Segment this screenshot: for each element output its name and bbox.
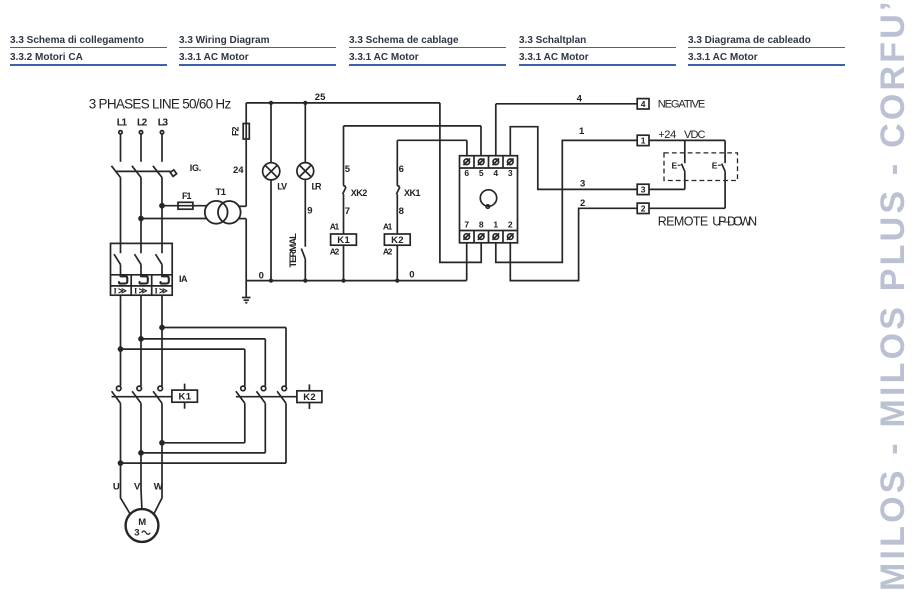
- label A2 K1: [330, 246, 340, 256]
- breaker IA pole 1 magnetic label I>>: [114, 286, 128, 296]
- label wire 3: [580, 179, 585, 190]
- contactor K2 pole 2 contact: [256, 386, 265, 403]
- header row 2 col 4: [519, 52, 589, 63]
- svg-text:LV: LV: [277, 181, 287, 191]
- switch IG pole 3 blade: [153, 166, 162, 178]
- node L3 label: [158, 118, 169, 129]
- wire U lead to motor: [121, 490, 131, 514]
- terminal screw 1: [493, 233, 500, 240]
- terminal screw 3: [507, 159, 514, 166]
- svg-text:A2: A2: [383, 246, 393, 256]
- wire box 2 to pushbutton E2: [649, 207, 725, 209]
- wire L3 to breaker: [161, 178, 163, 244]
- node L2 label: [137, 118, 148, 129]
- E1 dash: [678, 164, 681, 166]
- contactor K2 linkage: [236, 396, 297, 398]
- terminal screw 2: [507, 233, 514, 240]
- fuse F1: [178, 202, 193, 209]
- contactor K2 pole 1 contact: [236, 386, 245, 403]
- label T1: [216, 187, 227, 198]
- svg-text:A1: A1: [383, 222, 393, 232]
- terminal L3: [160, 131, 163, 134]
- pin labels 6 5 4 3: [464, 168, 513, 178]
- svg-text:≫: ≫: [159, 286, 168, 296]
- label NEGATIVE: [658, 98, 706, 110]
- wire K2 pole2 to V: [141, 403, 265, 453]
- wire rail25 down to terminal 8: [440, 103, 481, 263]
- svg-text:I: I: [134, 286, 138, 296]
- switch XK1: [396, 183, 399, 195]
- wire W lead to motor: [154, 490, 162, 514]
- wire L3 to fuse F1 to T1: [162, 205, 207, 207]
- header row 2 col 2: [179, 52, 249, 63]
- wire L1 drop: [120, 134, 122, 162]
- pin labels 7 8 1 2: [464, 220, 513, 230]
- svg-text:6: 6: [399, 164, 404, 175]
- label 6: [399, 164, 404, 175]
- wire box 3 to pushbutton E1: [649, 188, 685, 190]
- header row 1 col 3: [349, 35, 459, 46]
- label wire 2: [580, 198, 585, 209]
- wire 24 vertical through F2: [245, 103, 247, 206]
- header row 1 col 4: [519, 35, 586, 46]
- header row 1 col 1: [10, 35, 144, 46]
- wire K2 coil branch top: [397, 140, 467, 182]
- node phase3 tap: [160, 326, 164, 330]
- svg-text:L3: L3: [158, 118, 169, 129]
- node L1 label: [117, 118, 128, 129]
- node L2/T1 junction: [139, 217, 143, 221]
- contactor K1 pole 1 contact: [112, 386, 121, 403]
- switch XK2: [343, 183, 346, 195]
- svg-text:≫: ≫: [118, 286, 127, 296]
- wire terminal 1 to box 1: [496, 140, 637, 262]
- svg-text:E: E: [672, 161, 678, 171]
- label 0 left: [259, 271, 264, 282]
- svg-text:I: I: [155, 286, 159, 296]
- label K1 box: [179, 392, 192, 403]
- transformer T1: [205, 201, 241, 224]
- label 5: [345, 164, 351, 175]
- svg-text:24: 24: [233, 165, 244, 176]
- label A2 K2: [383, 246, 393, 256]
- relay socket circle: [480, 190, 496, 209]
- label V: [134, 481, 141, 492]
- wire L2 to T1: [141, 218, 207, 220]
- header row 2 col 5: [688, 52, 758, 63]
- wire LV branch upper: [270, 103, 272, 163]
- svg-text:F2: F2: [231, 127, 241, 137]
- svg-text:TERMAL: TERMAL: [288, 233, 299, 268]
- motor M: [126, 509, 159, 542]
- contactor K1 pole 2 contact: [132, 386, 141, 403]
- label A1 K2: [383, 222, 393, 232]
- coil K1: [331, 234, 357, 245]
- svg-text:F1: F1: [182, 191, 192, 201]
- terminal block top dividers: [474, 156, 503, 168]
- svg-text:IG.: IG.: [190, 163, 202, 173]
- terminal L1: [119, 131, 122, 134]
- coil K2: [384, 234, 410, 245]
- svg-text:8: 8: [479, 220, 484, 230]
- svg-text:A1: A1: [330, 222, 340, 232]
- wire K1 coil to rail 0: [343, 245, 345, 280]
- svg-text:4: 4: [577, 94, 583, 105]
- label E1: [672, 161, 678, 171]
- node L3/F1 junction: [160, 204, 164, 208]
- terminal screw 4: [493, 159, 500, 166]
- wire V lead to motor: [140, 490, 143, 510]
- svg-text:E: E: [712, 161, 718, 171]
- svg-text:5: 5: [345, 164, 351, 175]
- svg-text:U: U: [113, 481, 120, 492]
- switch IG pole 2 blade: [132, 166, 141, 178]
- terminal screw 7: [463, 233, 470, 240]
- breaker IA pole 1 thermal element: [119, 275, 127, 284]
- contactor K2 pole 3 contact: [277, 386, 286, 403]
- breaker IA pole 2 thermal element: [139, 275, 147, 284]
- wire terminal 5 up to K1 line: [480, 126, 482, 156]
- svg-text:K2: K2: [303, 392, 316, 403]
- wire K2 coil to rail 0: [396, 245, 398, 280]
- svg-text:K1: K1: [179, 392, 192, 403]
- breaker IA body: [111, 243, 173, 295]
- label 8: [399, 206, 404, 217]
- node rail0/LV junction: [270, 279, 273, 282]
- connector box 2: [637, 203, 649, 213]
- switch TERMAL blade: [301, 249, 305, 259]
- svg-text:2: 2: [508, 220, 513, 230]
- svg-text:XK1: XK1: [404, 188, 421, 198]
- label LR: [312, 181, 323, 191]
- contactor K2 designation box: [297, 384, 322, 409]
- breaker IA pole 2 contact: [135, 243, 142, 274]
- wire terminal 3 up and over: [510, 127, 637, 190]
- connector box 1: [637, 135, 649, 145]
- wire L1 to breaker: [120, 178, 122, 244]
- ground: [242, 298, 251, 303]
- label 25: [315, 92, 326, 103]
- wire rail 25: [246, 102, 440, 104]
- svg-text:3: 3: [641, 185, 646, 195]
- svg-text:+24: +24: [658, 129, 676, 141]
- svg-text:4: 4: [641, 99, 646, 109]
- connector box 4: [637, 99, 649, 109]
- label XK2: [351, 188, 368, 198]
- connector box 3: [637, 184, 649, 194]
- breaker IA pole 3 thermal element: [160, 275, 168, 284]
- label W: [154, 481, 163, 492]
- label XK1: [404, 188, 421, 198]
- dashed pushbutton enclosure: [664, 153, 738, 181]
- svg-text:7: 7: [464, 220, 469, 230]
- label F2: [231, 127, 241, 137]
- sidebar vertical brand text: [874, 0, 913, 591]
- pushbutton E2: [722, 140, 725, 208]
- wire terminal 4 up: [495, 104, 497, 156]
- wire phase2 to K2 pole2: [141, 339, 265, 386]
- svg-text:V: V: [134, 481, 141, 492]
- label wire 1: [579, 126, 585, 137]
- wire L3 drop: [161, 134, 163, 162]
- svg-text:T1: T1: [216, 187, 227, 198]
- label E2: [712, 161, 718, 171]
- svg-text:3: 3: [580, 179, 585, 190]
- node phase2 tap: [139, 337, 143, 341]
- pin 4 label: [641, 99, 646, 109]
- breaker IA pole 2 magnetic label I>>: [134, 286, 148, 296]
- svg-text:0: 0: [259, 271, 264, 282]
- label 0 right: [409, 269, 414, 280]
- terminal L2: [139, 131, 142, 134]
- contactor K1 designation box: [172, 384, 198, 409]
- terminal screw 6: [463, 159, 470, 166]
- svg-text:3: 3: [508, 168, 513, 178]
- pushbutton E1: [681, 140, 684, 189]
- svg-text:K2: K2: [391, 235, 404, 246]
- label 9: [307, 206, 312, 217]
- svg-text:L2: L2: [137, 118, 148, 129]
- svg-text:XK2: XK2: [351, 188, 368, 198]
- node rail25/LR junction: [304, 102, 307, 105]
- wire LR branch lower: [304, 259, 306, 281]
- wire terminal 6 up to K2 line: [466, 140, 468, 155]
- node phase1 tap: [119, 347, 123, 351]
- svg-text:A2: A2: [330, 246, 340, 256]
- label IA: [179, 274, 188, 284]
- terminal screw 8: [478, 233, 485, 240]
- wire K2 pole3 to U: [121, 403, 287, 463]
- wire terminal 2 to box 2: [510, 208, 637, 280]
- label M 3~: [134, 517, 146, 538]
- label K2 box: [303, 392, 316, 403]
- switch IG pole 1 blade: [111, 166, 120, 178]
- svg-text:NEGATIVE: NEGATIVE: [658, 98, 706, 110]
- header row 2 col 1: [10, 52, 83, 63]
- wire K1 coil branch top: [344, 126, 482, 183]
- wire XK2 to K1 coil: [343, 194, 345, 234]
- wire XK1 to K2 coil: [396, 194, 398, 234]
- svg-text:K1: K1: [337, 235, 350, 246]
- wire LR branch middle: [304, 179, 306, 246]
- svg-text:≫: ≫: [139, 286, 148, 296]
- node rail0/K2 junction: [396, 279, 399, 282]
- node crossover W: [160, 441, 164, 445]
- svg-text:L1: L1: [117, 118, 128, 129]
- svg-text:9: 9: [307, 206, 312, 217]
- header row 1 col 5: [688, 35, 811, 46]
- node rail0/K1 junction: [342, 279, 345, 282]
- svg-text:REMOTE: REMOTE: [658, 214, 709, 228]
- terminal block body: [460, 156, 518, 243]
- E2 dash: [718, 164, 721, 166]
- wire +24VDC rail: [649, 139, 725, 141]
- svg-text:1: 1: [641, 136, 646, 146]
- svg-text:2: 2: [641, 203, 646, 213]
- svg-text:6: 6: [464, 168, 469, 178]
- wire T1 secondary top: [239, 205, 246, 207]
- node rail25/LV junction: [270, 102, 273, 105]
- label 7: [345, 206, 350, 217]
- contactor K1 pole 3 contact: [153, 386, 162, 403]
- wire K1 pole2 down: [140, 403, 142, 489]
- svg-text:VDC: VDC: [684, 129, 706, 141]
- breaker IA pole 1 contact: [114, 243, 121, 274]
- label LV: [277, 181, 287, 191]
- node crossover U: [119, 461, 123, 465]
- svg-text:1: 1: [579, 126, 585, 137]
- wire K1 pole3 down: [161, 403, 163, 489]
- terminal block bottom dividers: [474, 231, 503, 243]
- label F1: [182, 191, 192, 201]
- svg-text:3: 3: [134, 528, 139, 539]
- node crossover V: [139, 451, 143, 455]
- label U: [113, 481, 120, 492]
- svg-text:25: 25: [315, 92, 326, 103]
- lamp LR: [297, 163, 314, 180]
- label 24: [233, 165, 244, 176]
- wire phase3 below breaker: [161, 295, 163, 386]
- breaker IA pole 3 magnetic label I>>: [155, 286, 169, 296]
- title 3 PHASES LINE 50/60 Hz: [89, 96, 232, 111]
- label A1 K1: [330, 222, 340, 232]
- label +24 VDC: [658, 129, 705, 141]
- svg-text:IA: IA: [179, 274, 188, 284]
- wire phase3 to K2 pole1: [162, 328, 286, 387]
- svg-text:2: 2: [580, 198, 585, 209]
- label TERMAL: [288, 233, 299, 268]
- wire K2 pole1 to W: [162, 403, 245, 443]
- label REMOTE UP-DOWN: [658, 214, 758, 228]
- svg-text:LR: LR: [312, 181, 323, 191]
- wire 4 to NEGATIVE box: [496, 103, 637, 105]
- pin 2 label: [641, 203, 646, 213]
- svg-text:I: I: [114, 286, 118, 296]
- wire phase2 below breaker: [140, 295, 142, 386]
- pin 1 label: [641, 136, 646, 146]
- wire L2 drop: [140, 134, 142, 162]
- wire LV branch lower: [270, 180, 272, 281]
- svg-text:8: 8: [399, 206, 404, 217]
- svg-text:UP–DOWN: UP–DOWN: [712, 214, 757, 228]
- lamp LV: [263, 163, 280, 180]
- wire phase1 below breaker: [120, 295, 122, 386]
- svg-text:0: 0: [409, 269, 414, 280]
- svg-text:4: 4: [493, 168, 498, 178]
- contactor K1 linkage: [112, 396, 172, 398]
- wire LR branch upper: [304, 103, 306, 163]
- label wire 4: [577, 94, 583, 105]
- label IG.: [190, 163, 202, 173]
- pin 3 label: [641, 185, 646, 195]
- svg-text:1: 1: [493, 220, 498, 230]
- node rail0/LR junction: [304, 279, 307, 282]
- breaker IA pole 3 contact: [156, 243, 163, 274]
- wire T1 secondary bottom: [239, 218, 247, 220]
- header row 2 col 3: [349, 52, 419, 63]
- wire phase1 to K2 pole3: [121, 349, 245, 386]
- svg-text:7: 7: [345, 206, 350, 217]
- wire L2 to breaker: [140, 178, 142, 244]
- wire rail 0: [246, 280, 466, 282]
- label K2 coil: [391, 235, 404, 246]
- wire K1 pole1 down: [120, 403, 122, 489]
- terminal screw 5: [478, 159, 485, 166]
- fuse F2: [243, 124, 249, 140]
- motor sine symbol: [142, 531, 150, 534]
- wire terminal 7 to rail 0: [466, 243, 468, 281]
- wire down to 0 rail and ground: [245, 219, 247, 298]
- label K1 coil: [337, 235, 350, 246]
- switch IG linkage: [116, 170, 177, 177]
- svg-text:5: 5: [479, 168, 484, 178]
- svg-text:3 PHASES LINE 50/60 Hz: 3 PHASES LINE 50/60 Hz: [89, 96, 232, 111]
- header row 1 col 2: [179, 35, 270, 46]
